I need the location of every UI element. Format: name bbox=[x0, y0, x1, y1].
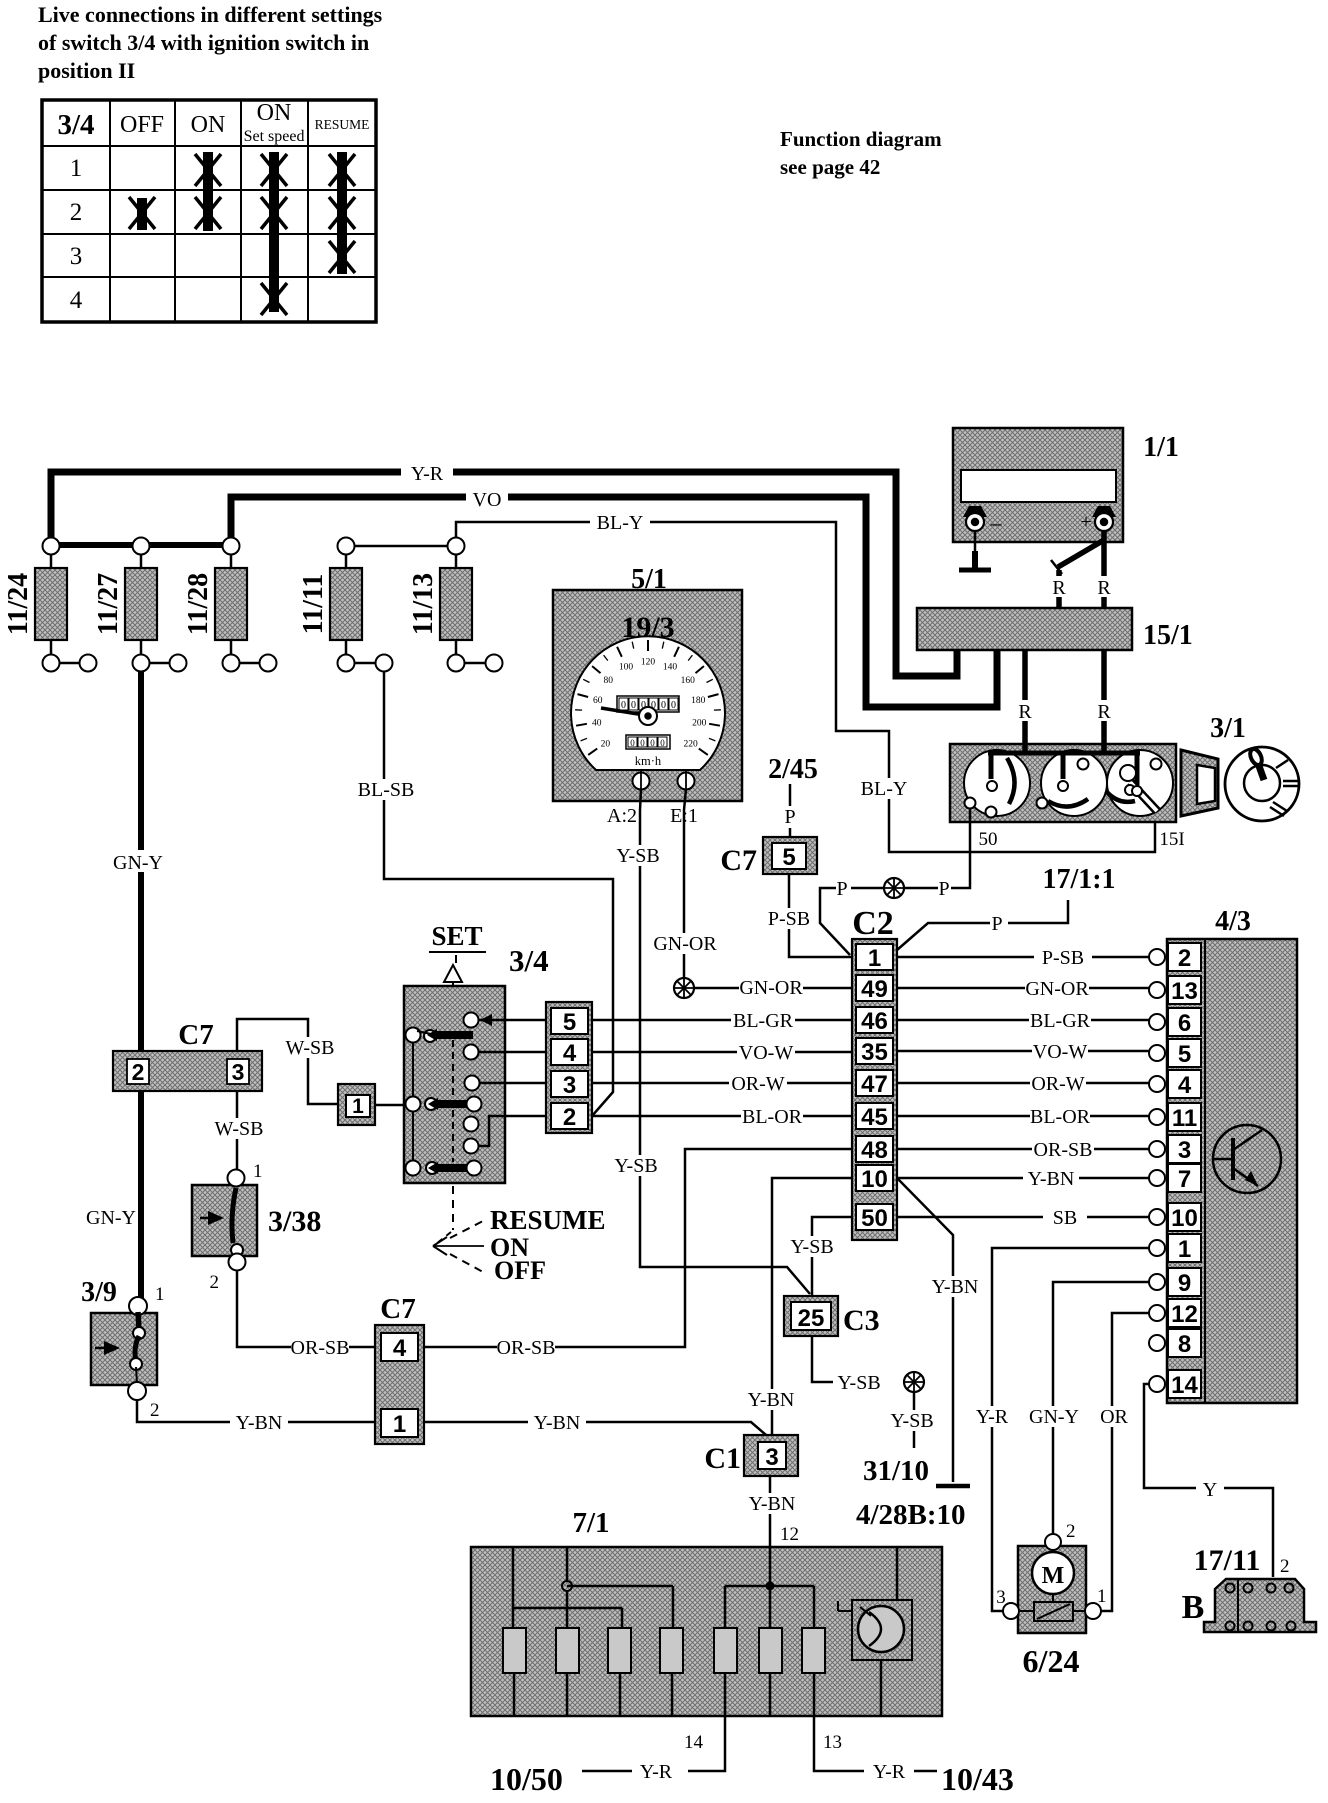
C7 pin 4 bbox=[381, 1333, 418, 1361]
wire 14 (7/1 to 10/50) bbox=[688, 1673, 725, 1771]
svg-text:5: 5 bbox=[1178, 1041, 1191, 1068]
svg-text:Y-BN: Y-BN bbox=[748, 1389, 795, 1411]
ignition switch 3/1 bbox=[950, 744, 1176, 822]
wire Y-SB (splice to 31/10) bbox=[913, 1392, 916, 1448]
ground below 1/1 bbox=[959, 531, 991, 570]
wire Y-BN (C2:10 to ground 31/10) bbox=[897, 1178, 953, 1482]
splice GN-OR bbox=[674, 978, 694, 998]
connector 1 (to 3/4) bbox=[338, 1084, 375, 1125]
wire VO feed bbox=[231, 497, 997, 707]
C2 pin 45 bbox=[856, 1103, 893, 1129]
svg-text:4: 4 bbox=[70, 287, 83, 314]
svg-text:Y-R: Y-R bbox=[873, 1761, 906, 1783]
switch terminals bbox=[965, 798, 976, 809]
svg-text:12: 12 bbox=[1171, 1301, 1198, 1328]
svg-text:SET: SET bbox=[431, 921, 482, 951]
wire P (C2:1 to 17/1:1) bbox=[897, 923, 990, 950]
wire Y-R feed bbox=[51, 472, 957, 676]
svg-text:C3: C3 bbox=[843, 1304, 880, 1337]
svg-text:15/1: 15/1 bbox=[1143, 620, 1193, 651]
svg-text:1: 1 bbox=[868, 945, 881, 972]
svg-text:200: 200 bbox=[692, 719, 707, 729]
svg-text:GN-Y: GN-Y bbox=[113, 852, 163, 874]
svg-text:C7: C7 bbox=[720, 844, 757, 877]
svg-text:P-SB: P-SB bbox=[768, 908, 810, 930]
wire OR-SB (C2:48 to C7:4) bbox=[424, 1149, 852, 1347]
svg-text:see page 42: see page 42 bbox=[780, 155, 880, 179]
svg-text:1/1: 1/1 bbox=[1143, 432, 1179, 463]
svg-text:4/28B:10: 4/28B:10 bbox=[856, 1499, 966, 1531]
wire BL-OR (C2 to 4/3) bbox=[897, 1115, 1149, 1118]
svg-text:0: 0 bbox=[631, 700, 636, 711]
bracket 17/11 B bbox=[1204, 1579, 1316, 1632]
svg-text:3: 3 bbox=[996, 1587, 1006, 1608]
7/1 fuse 5 bbox=[714, 1628, 737, 1673]
wire OR-W (C2 to 4/3) bbox=[897, 1082, 1149, 1085]
svg-text:7: 7 bbox=[1178, 1166, 1191, 1193]
C2 pin 49 bbox=[856, 975, 893, 1001]
wire GN-OR to C2:49 bbox=[694, 987, 852, 990]
7/1 fuse 2 bbox=[556, 1628, 579, 1673]
svg-text:B: B bbox=[1182, 1589, 1205, 1626]
svg-text:3: 3 bbox=[765, 1444, 778, 1471]
wire Y-R (4/3:1 to 6/24:3) bbox=[992, 1248, 1149, 1611]
svg-text:7/1: 7/1 bbox=[572, 1507, 609, 1539]
svg-text:Y-BN: Y-BN bbox=[534, 1412, 581, 1434]
fuse box 7/1 bbox=[471, 1547, 942, 1716]
strip pin 4 bbox=[551, 1039, 588, 1065]
key blade in wafer 3 bbox=[1130, 782, 1157, 811]
svg-text:BL-OR: BL-OR bbox=[742, 1106, 803, 1128]
svg-text:2: 2 bbox=[150, 1400, 160, 1421]
svg-text:OFF: OFF bbox=[494, 1256, 546, 1285]
svg-text:VO-W: VO-W bbox=[739, 1042, 794, 1064]
svg-text:C7: C7 bbox=[380, 1293, 415, 1325]
connector strip pins 5/4/3/2 bbox=[546, 1002, 592, 1133]
fuse 11/13 bbox=[408, 538, 503, 672]
svg-text:35: 35 bbox=[861, 1039, 888, 1066]
4/3 pin 8 bbox=[1149, 1335, 1165, 1351]
svg-text:P: P bbox=[991, 913, 1002, 935]
svg-text:0: 0 bbox=[621, 700, 626, 711]
svg-text:0: 0 bbox=[630, 738, 635, 748]
svg-text:OFF: OFF bbox=[120, 112, 164, 138]
7/1 fuse 1 bbox=[503, 1628, 526, 1673]
SET arrow bbox=[444, 965, 462, 982]
svg-text:4: 4 bbox=[393, 1335, 407, 1362]
svg-text:11/24: 11/24 bbox=[3, 573, 34, 635]
svg-text:R: R bbox=[1097, 577, 1111, 599]
svg-text:40: 40 bbox=[592, 719, 602, 729]
svg-text:OR-SB: OR-SB bbox=[1034, 1139, 1093, 1161]
svg-text:140: 140 bbox=[663, 662, 678, 672]
switch blade of 1/1 bbox=[1051, 540, 1104, 574]
connector C1 pin 3 bbox=[744, 1435, 798, 1476]
svg-text:OR-W: OR-W bbox=[731, 1073, 784, 1095]
connector C2 bbox=[852, 939, 897, 1240]
svg-text:1: 1 bbox=[352, 1095, 364, 1118]
svg-text:2: 2 bbox=[563, 1104, 576, 1131]
switch 3/38 bbox=[192, 1170, 257, 1271]
svg-text:2: 2 bbox=[1178, 945, 1191, 972]
svg-text:P: P bbox=[836, 878, 847, 900]
wire W-SB (C7:3 top to connector 1) bbox=[237, 1019, 338, 1104]
wire R (15/1 to ignition switch) left bbox=[1022, 650, 1028, 747]
wire Y-BN (C7:1 to C1:3) bbox=[424, 1422, 766, 1435]
wire W-SB (C7:3 to 3/38:1) bbox=[236, 1091, 239, 1170]
svg-text:R: R bbox=[1097, 701, 1111, 723]
4/3 pin 7 bbox=[1149, 1170, 1165, 1186]
svg-text:W-SB: W-SB bbox=[215, 1118, 264, 1140]
svg-text:3/4: 3/4 bbox=[509, 943, 549, 978]
svg-text:2: 2 bbox=[1280, 1556, 1290, 1577]
svg-text:4/3: 4/3 bbox=[1215, 906, 1251, 937]
svg-text:Y-SB: Y-SB bbox=[616, 845, 659, 867]
table X mark bbox=[329, 197, 355, 229]
C7 pin 1 bbox=[381, 1409, 418, 1437]
table X mark bbox=[195, 197, 221, 229]
svg-text:GN-Y: GN-Y bbox=[86, 1207, 136, 1229]
C7 pin 2 bbox=[127, 1059, 149, 1084]
svg-text:10/43: 10/43 bbox=[941, 1761, 1014, 1797]
4/3 pin 12 bbox=[1149, 1305, 1165, 1321]
svg-text:2: 2 bbox=[70, 199, 83, 226]
wire OR-SB (3/38:2 to C7:4) bbox=[237, 1271, 375, 1347]
svg-text:2/45: 2/45 bbox=[768, 754, 818, 785]
wire P-SB (C2 to 4/3) bbox=[897, 956, 1149, 959]
splice Y-SB bbox=[904, 1372, 924, 1392]
svg-text:Y-BN: Y-BN bbox=[236, 1412, 283, 1434]
svg-text:1: 1 bbox=[1178, 1236, 1191, 1263]
strip pin 3 bbox=[551, 1071, 588, 1097]
RESUME/ON/OFF dashed arrows bbox=[433, 1186, 484, 1272]
ground 4/28B:10 bbox=[936, 1484, 970, 1489]
component 15/1 (fusebox bar) bbox=[917, 608, 1132, 650]
wire P-SB (C7:5 to C2:1) bbox=[789, 874, 852, 957]
svg-text:31/10: 31/10 bbox=[863, 1455, 929, 1487]
svg-text:Y-BN: Y-BN bbox=[1028, 1168, 1075, 1190]
svg-text:OR: OR bbox=[1100, 1406, 1128, 1428]
svg-text:3: 3 bbox=[232, 1059, 245, 1085]
svg-text:220: 220 bbox=[683, 739, 698, 749]
svg-text:GN-OR: GN-OR bbox=[1025, 978, 1089, 1000]
wire GN-OR (C2 to 4/3) bbox=[897, 987, 1149, 990]
connector C7 pins 2,3 bbox=[113, 1051, 262, 1091]
table X mark bbox=[261, 154, 287, 186]
svg-text:2: 2 bbox=[210, 1272, 220, 1293]
svg-text:5/1: 5/1 bbox=[631, 564, 667, 595]
7/1 fuse 7 bbox=[802, 1628, 825, 1673]
svg-text:Y-R: Y-R bbox=[976, 1406, 1009, 1428]
key symbol 3/1 bbox=[1225, 747, 1300, 821]
table X mark bbox=[261, 283, 287, 315]
wire Y-SB (speedo A:2 to connector C3) bbox=[640, 789, 810, 1294]
svg-text:Y-SB: Y-SB bbox=[614, 1155, 657, 1177]
svg-text:1: 1 bbox=[70, 155, 83, 182]
svg-text:50: 50 bbox=[861, 1205, 888, 1232]
svg-text:Y-SB: Y-SB bbox=[837, 1372, 880, 1394]
7/1 fuse 3 bbox=[608, 1628, 631, 1673]
wire GN-Y (4/3:9 to 6/24:2) bbox=[1053, 1282, 1149, 1533]
svg-text:8: 8 bbox=[1178, 1331, 1191, 1358]
svg-text:1: 1 bbox=[393, 1411, 406, 1438]
wire SB (C2 to 4/3) bbox=[897, 1216, 1149, 1219]
terminal - of 1/1 bbox=[963, 506, 1003, 535]
switch wafer slots bbox=[1007, 758, 1015, 804]
connector to key bbox=[1181, 750, 1218, 816]
4/3 pin 2 bbox=[1149, 949, 1165, 965]
svg-text:2: 2 bbox=[1066, 1521, 1076, 1542]
svg-text:13: 13 bbox=[1171, 978, 1198, 1005]
4/3 pin 14 bbox=[1149, 1376, 1165, 1392]
C7 pin 3 bbox=[227, 1059, 249, 1084]
switch internal bus bbox=[988, 751, 1140, 756]
4/3 pin 6 bbox=[1149, 1014, 1165, 1030]
wire Y (4/3:14 to 17/11:2) bbox=[1144, 1384, 1273, 1577]
svg-text:Y-BN: Y-BN bbox=[749, 1493, 796, 1515]
6/24 terminal 2 bbox=[1045, 1534, 1061, 1550]
svg-text:0: 0 bbox=[671, 700, 676, 711]
svg-text:25: 25 bbox=[798, 1305, 825, 1332]
wire R (15/1 to ignition switch) right bbox=[1101, 650, 1107, 747]
svg-text:W-SB: W-SB bbox=[286, 1037, 335, 1059]
6/24 terminal 3 bbox=[1003, 1603, 1019, 1619]
svg-text:VO: VO bbox=[473, 489, 502, 511]
svg-text:ON: ON bbox=[191, 112, 226, 138]
switch 3/4 body bbox=[404, 986, 505, 1183]
terminal + of 1/1 bbox=[1080, 506, 1116, 533]
svg-text:11/27: 11/27 bbox=[93, 573, 124, 635]
wire VO-W (C2 to 4/3) bbox=[897, 1050, 1149, 1053]
svg-text:46: 46 bbox=[861, 1008, 888, 1035]
svg-text:14: 14 bbox=[684, 1732, 704, 1753]
svg-text:6: 6 bbox=[1178, 1010, 1191, 1037]
svg-text:GN-OR: GN-OR bbox=[739, 977, 803, 999]
component 1/1 (clock/relay) bbox=[953, 428, 1123, 542]
C2 pin 10 bbox=[856, 1165, 893, 1191]
svg-text:120: 120 bbox=[641, 658, 656, 668]
wire BL-GR (C2 to 4/3) bbox=[897, 1019, 1149, 1022]
svg-text:A:2: A:2 bbox=[607, 805, 637, 827]
transistor symbol in 4/3 bbox=[1213, 1125, 1281, 1193]
svg-text:SB: SB bbox=[1053, 1207, 1077, 1229]
svg-text:3/1: 3/1 bbox=[1210, 713, 1246, 744]
wire P (2/45 to C7:5) bbox=[789, 784, 792, 806]
wire GN-Y (fuse 11/27 to switch 3/9) bbox=[138, 671, 144, 1051]
svg-text:C1: C1 bbox=[704, 1442, 741, 1475]
4/3 pin 4 bbox=[1149, 1076, 1165, 1092]
svg-text:1: 1 bbox=[1097, 1586, 1107, 1607]
C2 pin 46 bbox=[856, 1007, 893, 1033]
4/3 pin 3 bbox=[1149, 1141, 1165, 1157]
svg-text:P: P bbox=[938, 878, 949, 900]
svg-text:BL-GR: BL-GR bbox=[733, 1010, 794, 1032]
svg-text:17/11: 17/11 bbox=[1194, 1544, 1261, 1577]
wire Y-BN (C1:3 to 7/1:12) bbox=[769, 1476, 772, 1547]
wire BL-SB (fuse 11/11 to connector pin 2) bbox=[384, 671, 613, 1116]
wire OR (4/3:12 to 6/24:1) bbox=[1101, 1313, 1149, 1611]
wire OR-SB (C2 to 4/3) bbox=[897, 1148, 1149, 1151]
svg-text:+: + bbox=[1080, 511, 1091, 533]
wire Y-BN (3/9:2 to C7:1) bbox=[137, 1400, 375, 1422]
svg-text:47: 47 bbox=[861, 1071, 888, 1098]
svg-text:48: 48 bbox=[861, 1137, 888, 1164]
wire R (blade to 15/1) bbox=[1056, 570, 1062, 608]
splice P bbox=[884, 878, 904, 898]
speedometer terminal A:2 bbox=[633, 773, 650, 790]
C2 pin 35 bbox=[856, 1038, 893, 1064]
odometer bbox=[617, 696, 679, 749]
gauge ticks bbox=[575, 640, 721, 755]
svg-text:15I: 15I bbox=[1159, 829, 1184, 850]
wire BL-Y feed bbox=[456, 522, 1155, 852]
svg-text:ON: ON bbox=[257, 100, 292, 126]
control unit 4/3 bbox=[1167, 939, 1297, 1403]
speedometer terminal E:1 bbox=[678, 773, 695, 790]
svg-text:Y-R: Y-R bbox=[640, 1761, 673, 1783]
wire BL-OR bbox=[592, 1115, 852, 1118]
svg-text:C7: C7 bbox=[178, 1019, 213, 1051]
wire GN-OR (speedo E:1 down) bbox=[684, 789, 686, 978]
svg-text:BL-OR: BL-OR bbox=[1030, 1106, 1091, 1128]
switch 3/9 bbox=[91, 1297, 157, 1400]
speedometer unit 5/1 bbox=[553, 564, 742, 801]
gauge needle bbox=[601, 708, 644, 715]
svg-text:12: 12 bbox=[780, 1524, 799, 1545]
svg-text:11/11: 11/11 bbox=[298, 574, 329, 635]
7/1 fuse 4 bbox=[660, 1628, 683, 1673]
svg-text:R: R bbox=[1052, 577, 1066, 599]
wire Y-SB (C2:50 to C3:25) bbox=[812, 1217, 852, 1296]
fuse 11/24 bbox=[3, 538, 97, 672]
svg-text:3: 3 bbox=[70, 243, 83, 270]
svg-text:Y-BN: Y-BN bbox=[932, 1276, 979, 1298]
svg-text:11/13: 11/13 bbox=[408, 573, 439, 635]
svg-text:M: M bbox=[1042, 1563, 1065, 1589]
svg-text:GN-OR: GN-OR bbox=[653, 933, 717, 955]
svg-text:R: R bbox=[1018, 701, 1032, 723]
4/3 pin 13 bbox=[1149, 982, 1165, 998]
table X mark bbox=[329, 241, 355, 273]
svg-text:160: 160 bbox=[681, 676, 696, 686]
svg-text:Y-R: Y-R bbox=[411, 463, 444, 485]
svg-text:17/1:1: 17/1:1 bbox=[1042, 864, 1115, 895]
svg-text:BL-GR: BL-GR bbox=[1030, 1010, 1091, 1032]
connector C7 pin 5 bbox=[763, 837, 817, 874]
7/1 internal wiring bbox=[513, 1547, 897, 1716]
svg-text:45: 45 bbox=[861, 1104, 888, 1131]
svg-text:4: 4 bbox=[1178, 1072, 1192, 1099]
svg-text:OR-W: OR-W bbox=[1031, 1073, 1084, 1095]
wire Y-BN (C2:10 to C1:3) bbox=[772, 1178, 852, 1435]
C2 pin 48 bbox=[856, 1136, 893, 1162]
strip pin 2 bbox=[551, 1103, 588, 1129]
svg-text:Y: Y bbox=[1203, 1479, 1217, 1501]
4/3 pin 9 bbox=[1149, 1274, 1165, 1290]
svg-text:3/9: 3/9 bbox=[81, 1277, 117, 1308]
C2 pin 1 bbox=[856, 944, 893, 970]
fuse 11/28 bbox=[183, 538, 277, 672]
svg-text:10: 10 bbox=[1171, 1205, 1198, 1232]
svg-text:5: 5 bbox=[563, 1009, 576, 1036]
svg-text:180: 180 bbox=[691, 696, 706, 706]
svg-text:Y-SB: Y-SB bbox=[890, 1410, 933, 1432]
svg-text:14: 14 bbox=[1171, 1372, 1198, 1399]
wire Y-SB (C3:25 to splice) bbox=[812, 1336, 884, 1382]
svg-text:9: 9 bbox=[1178, 1270, 1191, 1297]
svg-text:20: 20 bbox=[601, 739, 611, 749]
wire VO-W bbox=[592, 1051, 852, 1054]
svg-text:3/4: 3/4 bbox=[57, 109, 94, 141]
svg-text:C2: C2 bbox=[852, 905, 894, 942]
svg-text:GN-Y: GN-Y bbox=[1029, 1406, 1079, 1428]
svg-text:3/38: 3/38 bbox=[268, 1205, 321, 1238]
table contact bars bbox=[137, 198, 147, 230]
7/1 fuse 6 bbox=[759, 1628, 782, 1673]
svg-text:10/50: 10/50 bbox=[490, 1761, 563, 1797]
table X mark bbox=[195, 154, 221, 186]
7/1 relay bbox=[838, 1600, 912, 1660]
connector C7 pins 4,1 bbox=[375, 1325, 424, 1444]
fuse 11/27 bbox=[93, 538, 187, 672]
wire P (ignition 50 to C2:1) bbox=[951, 808, 970, 888]
svg-text:P: P bbox=[784, 806, 795, 828]
switch position table bbox=[42, 100, 376, 322]
svg-text:VO-W: VO-W bbox=[1033, 1041, 1088, 1063]
svg-text:1: 1 bbox=[253, 1161, 263, 1182]
svg-text:km·h: km·h bbox=[635, 754, 662, 768]
4/3 pin 11 bbox=[1149, 1109, 1165, 1125]
6/24 terminal 1 bbox=[1085, 1603, 1101, 1619]
svg-text:13: 13 bbox=[823, 1732, 842, 1753]
fuse top bus thick bbox=[51, 542, 231, 548]
4/3 pin 5 bbox=[1149, 1045, 1165, 1061]
connector C3 pin 25 bbox=[784, 1296, 838, 1336]
svg-text:80: 80 bbox=[603, 676, 613, 686]
svg-text:position II: position II bbox=[38, 58, 135, 83]
SET label bbox=[429, 921, 486, 963]
strip pin 5 bbox=[551, 1008, 588, 1034]
svg-text:6/24: 6/24 bbox=[1023, 1643, 1080, 1679]
svg-text:Y-SB: Y-SB bbox=[790, 1236, 833, 1258]
svg-text:49: 49 bbox=[861, 976, 888, 1003]
4/3 pin 1 bbox=[1149, 1240, 1165, 1256]
svg-text:1: 1 bbox=[155, 1284, 165, 1305]
servo motor 6/24 bbox=[1018, 1546, 1086, 1633]
svg-text:OR-SB: OR-SB bbox=[497, 1337, 556, 1359]
svg-text:2: 2 bbox=[132, 1059, 145, 1085]
table X mark bbox=[129, 197, 155, 229]
svg-text:Set speed: Set speed bbox=[244, 128, 305, 145]
svg-text:Live connections in different: Live connections in different settings bbox=[38, 2, 383, 27]
4/3 pin 10 bbox=[1149, 1209, 1165, 1225]
svg-text:3: 3 bbox=[1178, 1137, 1191, 1164]
C2 pin 47 bbox=[856, 1070, 893, 1096]
fuse top bus thin bbox=[346, 545, 456, 548]
svg-text:Function diagram: Function diagram bbox=[780, 127, 942, 151]
svg-text:BL-Y: BL-Y bbox=[597, 512, 644, 534]
svg-text:60: 60 bbox=[593, 696, 603, 706]
svg-text:11: 11 bbox=[1172, 1105, 1197, 1132]
svg-text:10: 10 bbox=[861, 1166, 888, 1193]
svg-text:OR-SB: OR-SB bbox=[291, 1337, 350, 1359]
svg-text:3: 3 bbox=[563, 1072, 576, 1099]
svg-text:0: 0 bbox=[640, 738, 645, 748]
svg-text:0: 0 bbox=[660, 738, 665, 748]
table X mark bbox=[261, 197, 287, 229]
gauge face 19/3 bbox=[571, 636, 725, 770]
wire R (1/1 + to 15/1) bbox=[1101, 531, 1107, 608]
